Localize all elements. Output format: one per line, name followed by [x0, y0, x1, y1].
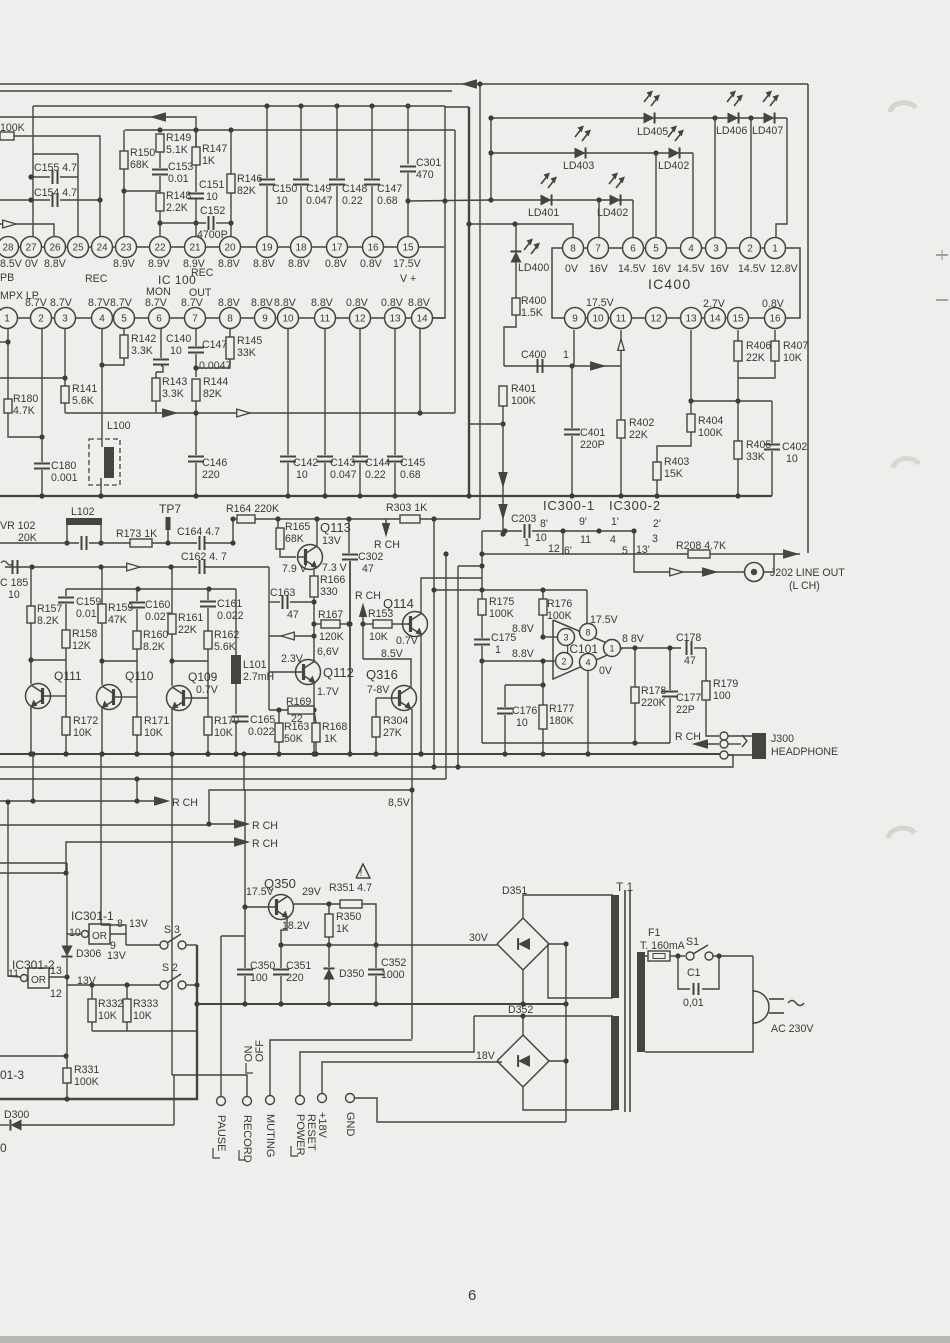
- IC100 pin 24: [92, 237, 113, 258]
- wire bundle x172 drop: [171, 754, 173, 1075]
- wire q350 collector: [294, 901, 340, 906]
- IC100 pin 28: [0, 237, 19, 258]
- svg-text:C154 4.7: C154 4.7: [34, 187, 77, 199]
- wire record riser: [172, 1075, 247, 1125]
- resistor R159: [98, 567, 133, 685]
- label 8.8V b: [512, 648, 535, 660]
- capacitor C402: [764, 401, 807, 496]
- svg-text:R177: R177: [549, 703, 574, 715]
- svg-text:14.5V: 14.5V: [618, 263, 647, 275]
- svg-text:C163: C163: [270, 587, 295, 599]
- wire pause top link: [221, 935, 245, 937]
- wire top border line 1: [0, 83, 452, 85]
- svg-text:Q110: Q110: [125, 669, 154, 683]
- wire r331 top: [0, 1053, 69, 1058]
- capacitor C176: [497, 682, 546, 754]
- capacitor C352: [368, 945, 406, 1004]
- label REC: [85, 273, 108, 285]
- wire V+ corner to pin14 feed: [444, 106, 446, 201]
- svg-text:D300: D300: [4, 1109, 29, 1121]
- svg-text:23: 23: [120, 243, 132, 254]
- svg-text:R161: R161: [178, 612, 203, 624]
- resistor R158: [31, 628, 97, 717]
- transistor Q110: [97, 669, 154, 710]
- svg-text:6: 6: [468, 1287, 476, 1304]
- led LD401: [528, 173, 559, 220]
- svg-text:Q114: Q114: [383, 596, 414, 611]
- svg-text:18V: 18V: [476, 1050, 496, 1062]
- svg-text:14.5V: 14.5V: [738, 263, 767, 275]
- svg-text:C401: C401: [580, 427, 605, 439]
- svg-text:9: 9: [572, 314, 578, 325]
- label ON OFF: [243, 1040, 266, 1073]
- svg-text:IC400: IC400: [648, 276, 691, 292]
- svg-text:13: 13: [50, 965, 62, 977]
- wire rec-out arrow line: [0, 113, 196, 147]
- resistor R403: [653, 330, 695, 496]
- svg-text:1: 1: [772, 244, 778, 255]
- svg-text:OR: OR: [92, 931, 107, 942]
- svg-text:R175: R175: [489, 596, 514, 608]
- svg-text:C402: C402: [782, 441, 807, 453]
- resistor R161: [168, 567, 203, 686]
- svg-text:22K: 22K: [629, 429, 648, 441]
- svg-text:16V: 16V: [652, 263, 672, 275]
- resistor R178: [631, 648, 666, 743]
- wire C400 line: [504, 330, 621, 370]
- wire 6prime step: [562, 531, 564, 554]
- svg-text:LD401: LD401: [528, 207, 559, 219]
- led LD402b: [597, 173, 628, 220]
- resistor R177: [539, 658, 574, 754]
- capacitor C401: [564, 366, 605, 496]
- connector MUTING: [264, 1096, 276, 1158]
- svg-text:0.8V: 0.8V: [360, 258, 383, 270]
- svg-text:PB: PB: [0, 272, 14, 284]
- svg-text:1.5K: 1.5K: [521, 307, 543, 319]
- svg-text:29V: 29V: [302, 886, 322, 898]
- wire pin2 drop: [750, 118, 752, 237]
- svg-text:R166: R166: [320, 574, 345, 586]
- IC100 pin 9: [255, 308, 276, 329]
- IC400 pin 7: [588, 238, 609, 259]
- wire bundle x101 drop: [100, 754, 102, 925]
- svg-text:C152: C152: [200, 205, 225, 217]
- svg-text:0V: 0V: [25, 258, 39, 270]
- wire pin6 drop: [632, 200, 634, 237]
- svg-text:S 2: S 2: [162, 962, 178, 974]
- node 30V line: [278, 932, 497, 948]
- label IC300-2: [609, 498, 661, 513]
- svg-text:18: 18: [295, 243, 307, 254]
- svg-text:C140: C140: [166, 333, 191, 345]
- IC100 pin 5: [114, 308, 135, 329]
- IC100 pin 21: [185, 237, 206, 258]
- svg-text:R351 4.7: R351 4.7: [329, 882, 372, 894]
- svg-text:1: 1: [4, 314, 10, 325]
- IC100 pin 4: [92, 308, 113, 329]
- resistor R172: [62, 715, 98, 757]
- svg-text:REC: REC: [191, 267, 214, 279]
- resistor R147: [192, 130, 227, 192]
- svg-text:27K: 27K: [383, 727, 402, 739]
- resistor R176: [539, 590, 572, 640]
- label 7.9V: [282, 563, 308, 575]
- capacitor C1: [678, 956, 719, 1009]
- capacitor C350: [237, 904, 275, 1004]
- connector PAUSE: [213, 1097, 227, 1159]
- wire LD407 to pin1: [776, 118, 787, 237]
- svg-text:25: 25: [72, 243, 84, 254]
- label 1.7V: [317, 686, 340, 698]
- connector +18V: [316, 1094, 328, 1139]
- svg-text:100K: 100K: [74, 1076, 99, 1088]
- wire R CH up arrow: [355, 590, 381, 659]
- IC101 pin 2: [556, 653, 573, 670]
- capacitor C180: [34, 329, 78, 499]
- svg-text:T. 160mA: T. 160mA: [640, 940, 686, 952]
- svg-text:82K: 82K: [203, 388, 222, 400]
- svg-text:5.1K: 5.1K: [166, 144, 188, 156]
- wire J202 jog: [763, 554, 774, 572]
- wire pin7 drop: [598, 200, 600, 237]
- node power rail y1004: [197, 1001, 569, 1006]
- capacitor C155: [28, 154, 78, 237]
- wire Q112 base feed: [269, 602, 296, 672]
- wire R CH line 1: [0, 754, 198, 809]
- resistor R157: [27, 567, 62, 684]
- svg-text:R141: R141: [72, 383, 97, 395]
- svg-text:J300: J300: [771, 733, 794, 745]
- svg-text:R176: R176: [547, 598, 572, 610]
- capacitor C164: [177, 526, 236, 550]
- transistor Q113: [298, 520, 351, 570]
- resistor R168: [312, 710, 347, 754]
- IC101 pin 4: [580, 654, 597, 671]
- svg-text:TP7: TP7: [159, 502, 181, 516]
- svg-text:C151: C151: [199, 179, 224, 191]
- svg-text:3: 3: [62, 314, 68, 325]
- transistor Q111: [26, 669, 82, 709]
- IC100 pin 12: [350, 308, 371, 329]
- svg-text:10K: 10K: [783, 352, 802, 364]
- svg-text:20K: 20K: [18, 532, 37, 544]
- resistor R332: [88, 985, 123, 1031]
- svg-text:LD406: LD406: [716, 125, 747, 137]
- IC100 pin 16: [363, 237, 384, 258]
- capacitor C301: [400, 106, 441, 247]
- binder hole bottom: [888, 828, 915, 838]
- svg-text:0.8V: 0.8V: [762, 298, 785, 310]
- svg-text:C180: C180: [51, 460, 76, 472]
- svg-text:LD400: LD400: [518, 262, 549, 274]
- bridge D351: [497, 885, 549, 970]
- svg-text:15: 15: [732, 314, 744, 325]
- wire x446 drop: [445, 554, 447, 779]
- IC400 pin 1: [765, 238, 786, 259]
- svg-text:8.7V: 8.7V: [181, 297, 204, 309]
- svg-text:C161: C161: [217, 598, 242, 610]
- wire R CH stub down: [374, 519, 400, 551]
- svg-text:R CH: R CH: [252, 838, 278, 850]
- wire D351 right winding: [548, 944, 613, 998]
- svg-text:D350: D350: [339, 968, 364, 980]
- wire pin3 feed: [543, 636, 558, 638]
- svg-text:REC: REC: [85, 273, 108, 285]
- svg-text:C143: C143: [330, 457, 355, 469]
- node lower rail y754: [0, 751, 720, 756]
- resistor R146: [227, 130, 262, 247]
- svg-text:0.8V: 0.8V: [346, 297, 369, 309]
- resistor R402: [617, 366, 654, 496]
- resistor R171: [133, 715, 169, 757]
- svg-text:8': 8': [540, 518, 548, 530]
- label 2.3V: [281, 653, 304, 665]
- svg-text:330: 330: [320, 586, 338, 598]
- svg-text:Q113: Q113: [320, 520, 351, 535]
- svg-text:0V: 0V: [565, 263, 579, 275]
- wire top arrow feed line: [452, 80, 808, 88]
- wire bundle x480: [479, 84, 481, 519]
- svg-text:10: 10: [786, 453, 798, 465]
- svg-text:C177: C177: [676, 692, 701, 704]
- svg-text:6: 6: [156, 314, 162, 325]
- resistor R406: [734, 330, 771, 378]
- svg-text:180K: 180K: [549, 715, 574, 727]
- svg-text:R144: R144: [203, 376, 228, 388]
- wire input line y567: [5, 564, 197, 569]
- svg-text:R172: R172: [73, 715, 98, 727]
- svg-text:C149: C149: [306, 183, 331, 195]
- label MPX LP: [0, 290, 39, 302]
- svg-text:R169: R169: [286, 696, 311, 708]
- svg-text:R350: R350: [336, 911, 361, 923]
- IC400 pin 14: [705, 308, 726, 329]
- switch S3: [160, 924, 197, 949]
- wire pin2 feed: [482, 660, 556, 662]
- svg-text:12K: 12K: [72, 640, 91, 652]
- wire bias rail y130: [125, 127, 455, 132]
- capacitor C144: [352, 329, 390, 496]
- svg-text:8.8V: 8.8V: [512, 648, 535, 660]
- svg-text:8.8V: 8.8V: [408, 297, 431, 309]
- svg-text:12: 12: [50, 988, 62, 1000]
- svg-text:24: 24: [96, 243, 108, 254]
- svg-text:HEADPHONE: HEADPHONE: [771, 746, 838, 758]
- svg-text:C178: C178: [676, 632, 701, 644]
- resistor R145: [193, 329, 262, 371]
- svg-text:R163: R163: [284, 721, 309, 733]
- connector pins IC300: [540, 516, 661, 557]
- IC400 pin 3: [706, 238, 727, 259]
- svg-text:+18V: +18V: [316, 1112, 328, 1139]
- svg-text:1K: 1K: [202, 155, 215, 167]
- capacitor C162: [127, 551, 269, 574]
- wire arrow into Q112 base: [269, 632, 314, 640]
- capacitor C178: [676, 632, 706, 667]
- wire S3 left feed: [126, 944, 160, 946]
- IC400 pin 2: [740, 238, 761, 259]
- svg-text:14: 14: [709, 314, 721, 325]
- svg-text:17.5V: 17.5V: [393, 258, 422, 270]
- capacitor C147b: [188, 329, 232, 377]
- svg-text:13V: 13V: [322, 535, 342, 547]
- svg-text:6,6V: 6,6V: [317, 646, 340, 658]
- svg-text:1: 1: [524, 537, 530, 549]
- svg-text:IC301-1: IC301-1: [71, 909, 114, 923]
- inductor L101: [231, 589, 274, 714]
- IC IC400 body: [552, 248, 800, 318]
- svg-text:R404: R404: [698, 415, 723, 427]
- svg-text:D306: D306: [76, 948, 101, 960]
- svg-text:33K: 33K: [237, 347, 256, 359]
- svg-text:MON: MON: [146, 286, 171, 298]
- wire Q111 emitter: [28, 707, 33, 757]
- svg-text:50K: 50K: [284, 733, 303, 745]
- svg-text:R146: R146: [237, 173, 262, 185]
- svg-text:AC 230V: AC 230V: [771, 1023, 814, 1035]
- svg-text:14.5V: 14.5V: [677, 263, 706, 275]
- svg-text:R179: R179: [713, 678, 738, 690]
- connector GND: [344, 1094, 356, 1137]
- resistor R141: [0, 329, 97, 413]
- svg-text:100: 100: [713, 690, 731, 702]
- svg-text:Q350: Q350: [264, 876, 296, 891]
- svg-text:R CH: R CH: [374, 539, 400, 551]
- svg-text:L102: L102: [71, 506, 95, 518]
- svg-text:D352: D352: [508, 1004, 533, 1016]
- svg-text:12: 12: [354, 314, 366, 325]
- wire right border drop x808: [807, 84, 809, 553]
- wire bundle 17.5V drop x245: [244, 754, 245, 907]
- transistor Q350: [264, 876, 296, 920]
- binder hole top: [890, 102, 916, 112]
- node LED row C: [488, 150, 633, 202]
- bridge D352: [497, 1004, 549, 1087]
- IC100 pin 17: [327, 237, 348, 258]
- inductor L100: [89, 329, 131, 499]
- wire +18V link: [322, 1062, 502, 1094]
- svg-text:12: 12: [548, 543, 560, 555]
- trimmer VR102: [0, 520, 37, 544]
- svg-text:6: 6: [630, 244, 636, 255]
- wire pin14 drop: [419, 329, 421, 413]
- svg-text:7.3 V: 7.3 V: [322, 562, 348, 574]
- capacitor C400: [521, 349, 569, 373]
- svg-text:100K: 100K: [511, 395, 536, 407]
- svg-text:8.8V: 8.8V: [512, 623, 535, 635]
- svg-text:C147: C147: [202, 339, 227, 351]
- wire top border line 2: [0, 90, 452, 92]
- svg-text:OR: OR: [31, 975, 46, 986]
- capacitor C150: [259, 106, 297, 247]
- svg-text:LD402: LD402: [658, 160, 689, 172]
- resistor R407: [738, 330, 808, 378]
- wire R CH line 3: [0, 838, 278, 876]
- svg-text:R CH: R CH: [252, 820, 278, 832]
- node LED row B: [488, 115, 693, 155]
- svg-text:8.8V: 8.8V: [251, 297, 274, 309]
- svg-text:IC300-1: IC300-1: [543, 498, 595, 513]
- resistor R180: [0, 329, 45, 440]
- resistor R401: [499, 383, 536, 427]
- resistor R163: [275, 710, 309, 754]
- node lower rail y779: [0, 778, 446, 780]
- resistor R142: [99, 329, 156, 368]
- svg-text:10K: 10K: [133, 1010, 152, 1022]
- svg-text:R CH: R CH: [172, 797, 198, 809]
- resistor R150: [120, 130, 160, 247]
- svg-text:22P: 22P: [676, 704, 695, 716]
- svg-text:OFF: OFF: [254, 1040, 266, 1062]
- IC100 pin 25: [68, 237, 89, 258]
- wire y401 branch: [691, 398, 772, 403]
- svg-text:47: 47: [362, 563, 374, 575]
- svg-text:13: 13: [685, 314, 697, 325]
- svg-text:R160: R160: [143, 629, 168, 641]
- IC400 pin 4: [681, 238, 702, 259]
- resistor R160: [102, 629, 168, 717]
- IC100 pin 6: [149, 308, 170, 329]
- wire Q316 base: [376, 697, 391, 699]
- label PB: [0, 272, 14, 284]
- svg-text:IC300-2: IC300-2: [609, 498, 661, 513]
- wire Q113 collector: [316, 519, 318, 546]
- wire x482 upper: [481, 531, 483, 578]
- label MON: [146, 286, 171, 298]
- svg-text:8.9V: 8.9V: [148, 258, 171, 270]
- svg-text:0.7V: 0.7V: [196, 684, 219, 696]
- svg-text:4.7K: 4.7K: [13, 405, 35, 417]
- svg-text:14: 14: [416, 314, 428, 325]
- capacitor C177: [662, 648, 701, 743]
- wire gnd long line: [565, 1121, 567, 1122]
- svg-text:C203: C203: [511, 513, 536, 525]
- IC100 pin 3: [55, 308, 76, 329]
- svg-text:0,01: 0,01: [683, 997, 704, 1009]
- svg-text:0.022: 0.022: [217, 610, 244, 622]
- svg-text:C153: C153: [168, 161, 193, 173]
- svg-text:8.9V: 8.9V: [113, 258, 136, 270]
- wire R401 branch: [469, 423, 503, 425]
- resistor R179: [702, 648, 738, 736]
- testpoint TP7: [159, 502, 181, 546]
- svg-text:R150: R150: [130, 147, 155, 159]
- svg-text:8.7V: 8.7V: [25, 297, 48, 309]
- capacitor C151: [188, 179, 224, 247]
- svg-text:15K: 15K: [664, 468, 683, 480]
- svg-text:C145: C145: [400, 457, 425, 469]
- svg-text:R406: R406: [746, 340, 771, 352]
- wire J202 arrow line: [634, 531, 745, 576]
- label 7.3V: [322, 562, 348, 574]
- svg-text:2: 2: [38, 314, 44, 325]
- svg-text:V +: V +: [400, 273, 416, 285]
- svg-text:8.8V: 8.8V: [44, 258, 67, 270]
- wire R332 R333 join: [92, 1030, 197, 1032]
- capacitor C302: [342, 519, 383, 757]
- wire C301 to LED row C: [408, 197, 494, 318]
- svg-text:7.9 V: 7.9 V: [282, 563, 308, 575]
- wire pin8 feed: [466, 221, 573, 237]
- svg-text:0.22: 0.22: [342, 195, 363, 207]
- resistor R405: [734, 401, 771, 496]
- svg-text:1K: 1K: [336, 923, 349, 935]
- IC400 pin 11: [611, 308, 632, 329]
- svg-text:R165: R165: [285, 521, 310, 533]
- svg-text:13V: 13V: [107, 950, 127, 962]
- label 0 bottom left: [0, 1141, 7, 1155]
